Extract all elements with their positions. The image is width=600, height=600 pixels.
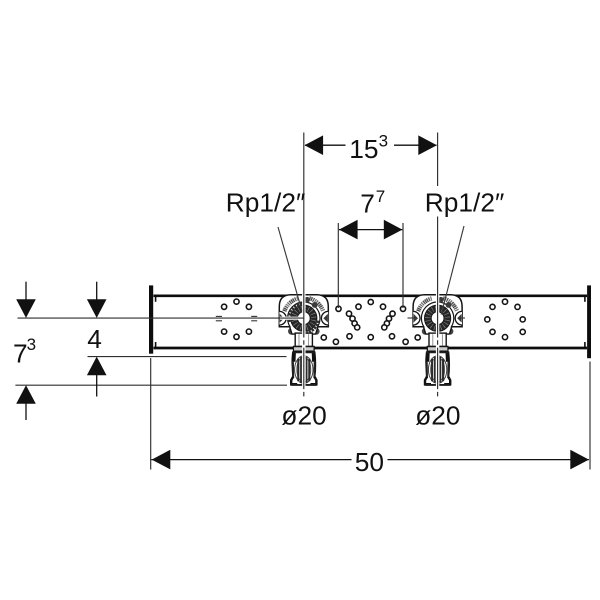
arrowhead left — [339, 220, 358, 240]
vertical dimension 4 bottom arrow — [87, 357, 107, 397]
rail plate top edge — [154, 294, 588, 297]
svg-text:50: 50 — [355, 447, 384, 477]
svg-text:ø20: ø20 — [281, 401, 326, 431]
left fitting U1 — [279, 295, 328, 385]
svg-text:Rp1/2″: Rp1/2″ — [226, 188, 305, 218]
leader line left Rp1/2 — [278, 227, 302, 311]
svg-text:Rp1/2″: Rp1/2″ — [425, 188, 504, 218]
left fitting union-nut crescents — [289, 304, 318, 333]
dimension line — [339, 229, 402, 231]
right end cap — [587, 285, 591, 358]
dimension 15.3 (centre distance of fittings) — [305, 132, 437, 164]
extension line left — [337, 223, 339, 308]
svg-text:ø20: ø20 — [415, 401, 460, 431]
arrowhead left — [305, 135, 324, 155]
plate corner tick top-right — [584, 297, 586, 302]
vertical dimension 7.3 bottom arrow — [16, 385, 36, 420]
left end cap — [149, 285, 153, 353]
svg-text:4: 4 — [87, 324, 102, 354]
extension line right — [402, 223, 404, 308]
svg-text:3: 3 — [27, 335, 36, 354]
arrowhead right — [384, 220, 403, 240]
vertical centreline / extension line left fitting — [303, 133, 305, 398]
white halo channels for centrelines — [280, 294, 438, 396]
dimension line segments — [305, 144, 346, 146]
extension line for dim 4 (pipe collar level) — [88, 356, 287, 358]
svg-text:7: 7 — [376, 187, 385, 206]
left hole-ring centreline dashes — [216, 316, 257, 320]
right hole ring — [485, 299, 526, 340]
left hole ring — [222, 299, 252, 339]
svg-text:15: 15 — [349, 134, 378, 164]
horizontal centerline to left fitting — [18, 317, 304, 319]
extension line for dim 7.3 (sleeve bottom level) — [15, 384, 287, 386]
leader line right Rp1/2 — [441, 226, 464, 315]
plate corner tick bottom-left — [155, 342, 157, 347]
extension line right — [589, 362, 591, 470]
rail plate bottom edge — [154, 347, 588, 350]
arrowhead right — [570, 450, 589, 470]
dimension 50 (overall rail length) — [151, 358, 590, 477]
plate corner tick top-left — [155, 297, 157, 302]
dimension 7.7 (fixing hole pitch) — [338, 187, 403, 308]
svg-text:7: 7 — [13, 339, 28, 369]
middle hole pattern — [321, 299, 420, 344]
right fitting U2 — [413, 295, 462, 385]
extension line left — [150, 358, 152, 470]
svg-text:7: 7 — [360, 189, 375, 219]
vertical dimension 4 top arrow — [87, 282, 107, 318]
arrowhead right — [418, 135, 437, 155]
arrowhead left — [152, 450, 171, 470]
vertical centreline / extension line right fitting — [437, 133, 439, 398]
plate corner tick bottom-right — [584, 342, 586, 347]
right fitting horizontal centreline dashes — [408, 317, 466, 319]
dimension line segments — [151, 459, 351, 461]
vertical dimension 7.3 top arrow — [16, 282, 36, 318]
svg-text:3: 3 — [379, 132, 388, 151]
